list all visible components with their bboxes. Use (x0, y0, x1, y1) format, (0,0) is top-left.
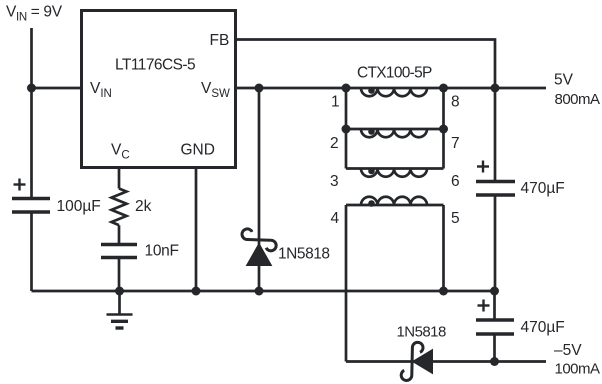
node C4 minus5V junction (490, 357, 499, 366)
label C4 plus (478, 300, 490, 312)
svg-text:3: 3 (330, 173, 339, 190)
svg-text:2k: 2k (135, 198, 152, 215)
svg-text:GND: GND (181, 142, 215, 159)
capacitor C2 10nF (101, 245, 137, 292)
node T1 pin7 junction (439, 125, 448, 134)
label C3 plus (477, 161, 489, 173)
svg-text:10nF: 10nF (145, 243, 179, 260)
transformer T1 right bus (442, 88, 445, 169)
svg-text:1: 1 (331, 94, 340, 111)
svg-text:100µF: 100µF (57, 198, 101, 215)
svg-text:100mA: 100mA (555, 361, 601, 378)
diode D1 1N5818 (242, 229, 276, 266)
svg-text:5V: 5V (554, 72, 574, 89)
svg-text:VIN = 9V: VIN = 9V (6, 4, 63, 24)
svg-text:VC: VC (111, 142, 130, 162)
svg-text:470µF: 470µF (521, 319, 565, 336)
diode D2 1N5818 (401, 342, 432, 380)
wire GND pin down (195, 168, 198, 291)
svg-text:VSW: VSW (201, 80, 230, 100)
svg-text:2: 2 (330, 135, 339, 152)
node pin5 ground junction (439, 287, 448, 296)
wire T1 pin5 down (442, 205, 445, 291)
svg-text:–5V: –5V (554, 342, 582, 359)
node input junction (27, 84, 36, 93)
wire input vertical lower (30, 212, 33, 291)
capacitor C1 100uF (12, 199, 50, 213)
node T1 pin1 junction (342, 84, 351, 93)
svg-text:7: 7 (451, 135, 460, 152)
node C3 ground junction (490, 287, 499, 296)
svg-text:800mA: 800mA (555, 91, 601, 108)
wire T1 pin4 down (345, 205, 348, 362)
op-amp U1 LT1176CS-5 box (82, 11, 236, 168)
svg-text:8: 8 (451, 94, 460, 111)
svg-text:6: 6 (451, 173, 460, 190)
wire ground rail (32, 290, 495, 293)
label C1 plus (14, 179, 26, 191)
node D1 ground junction (255, 287, 264, 296)
node GND junction (192, 287, 201, 296)
transformer T1 winding 4-5 (346, 197, 444, 205)
wire diode D1 branch (258, 88, 261, 291)
svg-text:FB: FB (210, 32, 230, 49)
transformer T1 winding4 phase dot (368, 200, 375, 207)
transformer T1 winding 3-6 (346, 169, 444, 177)
transformer T1 winding3 phase dot (368, 168, 375, 175)
ground symbol (107, 291, 133, 328)
svg-text:1N5818: 1N5818 (397, 324, 446, 341)
svg-text:4: 4 (331, 210, 340, 227)
wire VSW rail (235, 87, 547, 90)
wire to VIN pin (32, 87, 82, 90)
svg-text:470µF: 470µF (521, 180, 565, 197)
svg-text:1N5818: 1N5818 (278, 246, 330, 263)
transformer T1 winding 1-8 (361, 88, 427, 96)
transformer T1 winding 2-7 (346, 129, 444, 137)
capacitor C3 470uF top (476, 88, 515, 291)
transformer T1 left bus (345, 88, 348, 169)
node T1 pin8 junction (439, 84, 448, 93)
node 5V junction (491, 84, 500, 93)
node VSW junction (255, 84, 264, 93)
svg-text:LT1176CS-5: LT1176CS-5 (115, 57, 195, 74)
wire minus5V rail (346, 360, 546, 363)
svg-text:VIN: VIN (90, 80, 112, 100)
node T1 pin2 junction (342, 125, 351, 134)
transformer T1 winding2 phase dot (368, 128, 375, 135)
resistor R1 2k (112, 168, 127, 245)
svg-text:CTX100-5P: CTX100-5P (357, 65, 432, 82)
transformer T1 winding1 phase dot (368, 87, 375, 94)
wire input vertical (30, 28, 33, 199)
capacitor C4 470uF bottom (476, 291, 514, 362)
node VC ground junction (115, 287, 124, 296)
wire FB to output (235, 40, 496, 89)
svg-text:5: 5 (451, 210, 460, 227)
